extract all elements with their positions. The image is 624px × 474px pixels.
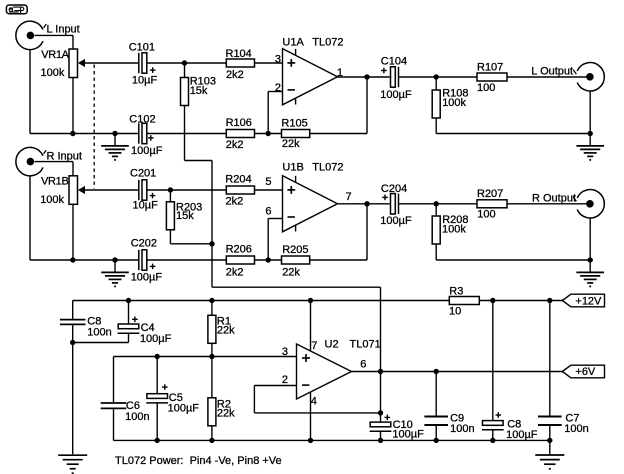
svg-text:10µF: 10µF	[132, 75, 158, 87]
svg-text:R3: R3	[449, 286, 463, 298]
svg-text:R207: R207	[477, 188, 503, 200]
svg-text:R204: R204	[225, 173, 251, 185]
svg-text:2k2: 2k2	[226, 267, 244, 279]
svg-text:R205: R205	[282, 244, 308, 256]
svg-text:3: 3	[282, 346, 288, 358]
svg-text:100µF: 100µF	[131, 272, 163, 284]
svg-text:VR1A: VR1A	[41, 49, 69, 61]
svg-text:TL072: TL072	[312, 36, 343, 48]
svg-text:100n: 100n	[125, 411, 149, 423]
svg-text:100µF: 100µF	[380, 215, 412, 227]
svg-text:R104: R104	[226, 48, 252, 60]
svg-text:L Input: L Input	[47, 24, 80, 36]
svg-text:+6V: +6V	[575, 366, 596, 378]
svg-text:10: 10	[449, 306, 461, 318]
svg-text:2: 2	[282, 374, 288, 386]
svg-text:2k2: 2k2	[226, 69, 244, 81]
svg-text:15k: 15k	[176, 210, 194, 222]
svg-text:100: 100	[477, 82, 495, 94]
svg-text:100n: 100n	[87, 326, 111, 338]
svg-text:7: 7	[346, 191, 352, 203]
svg-text:2k2: 2k2	[226, 139, 244, 151]
svg-text:2k2: 2k2	[226, 195, 244, 207]
svg-text:100: 100	[477, 209, 495, 221]
svg-text:100k: 100k	[41, 67, 65, 79]
svg-text:100n: 100n	[450, 423, 474, 435]
svg-text:R107: R107	[477, 61, 503, 73]
svg-text:R Output: R Output	[532, 193, 576, 205]
svg-text:100k: 100k	[442, 224, 466, 236]
svg-text:R105: R105	[281, 117, 307, 129]
svg-text:22k: 22k	[217, 407, 235, 419]
svg-text:10µF: 10µF	[133, 200, 159, 212]
svg-text:U2: U2	[325, 338, 339, 350]
svg-text:C201: C201	[130, 168, 156, 180]
svg-text:100µF: 100µF	[392, 428, 424, 440]
svg-text:3: 3	[275, 54, 281, 66]
svg-text:6: 6	[265, 205, 271, 217]
svg-text:R Input: R Input	[47, 150, 82, 162]
svg-text:22k: 22k	[217, 325, 235, 337]
svg-text:L Output: L Output	[531, 65, 573, 77]
svg-text:100µF: 100µF	[506, 429, 538, 441]
svg-text:C104: C104	[381, 56, 407, 68]
svg-text:22k: 22k	[282, 266, 300, 278]
svg-text:100µF: 100µF	[380, 89, 412, 101]
svg-text:100µF: 100µF	[168, 403, 200, 415]
svg-text:TL072: TL072	[312, 162, 343, 174]
svg-text:15k: 15k	[190, 85, 208, 97]
svg-text:R206: R206	[226, 244, 252, 256]
svg-text:C101: C101	[129, 42, 155, 54]
svg-text:4: 4	[311, 395, 317, 407]
svg-text:100k: 100k	[442, 97, 466, 109]
svg-text:5: 5	[265, 176, 271, 188]
svg-text:2: 2	[275, 82, 281, 94]
svg-text:7: 7	[311, 340, 317, 352]
svg-text:100µF: 100µF	[131, 145, 163, 157]
svg-text:C102: C102	[129, 113, 155, 125]
svg-text:TL071: TL071	[350, 338, 381, 350]
svg-text:R106: R106	[226, 117, 252, 129]
svg-text:TL072 Power: Pin4 -Ve, Pin8 +: TL072 Power: Pin4 -Ve, Pin8 +Ve	[115, 455, 282, 467]
svg-text:100k: 100k	[40, 194, 64, 206]
svg-text:U1B: U1B	[282, 162, 303, 174]
svg-text:U1A: U1A	[282, 36, 304, 48]
svg-text:100µF: 100µF	[140, 333, 172, 345]
svg-text:C204: C204	[381, 183, 407, 195]
svg-text:6: 6	[360, 359, 366, 371]
svg-text:100n: 100n	[564, 423, 588, 435]
svg-text:+12V: +12V	[575, 296, 602, 308]
svg-text:C202: C202	[131, 238, 157, 250]
svg-text:VR1B: VR1B	[41, 176, 69, 188]
svg-text:22k: 22k	[282, 138, 300, 150]
